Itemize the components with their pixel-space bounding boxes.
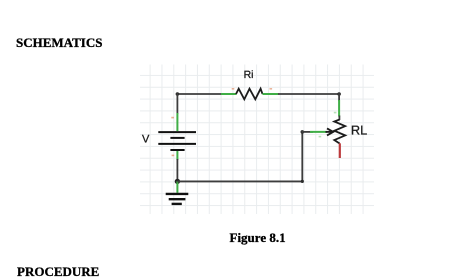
heading PROCEDURE (17, 265, 99, 278)
pin marker battery top (171, 117, 174, 119)
wire left vertical (top) (176, 93, 178, 114)
wiper arrowhead (326, 128, 334, 135)
pin marker RL top (334, 112, 337, 114)
lead red RL bottom (unconnected) (339, 143, 341, 158)
ground lead green (176, 181, 178, 193)
grid background (decorative) (140, 65, 374, 215)
pin marker Ri left (232, 88, 235, 90)
lead green RL top (338, 100, 340, 117)
wire left vertical (bottom) (176, 159, 178, 181)
lead green Ri right (263, 93, 279, 95)
wire RL top stub (338, 116, 340, 121)
wire right vertical (338, 93, 340, 101)
label V (142, 133, 150, 145)
label RL (351, 123, 367, 138)
ground symbol (166, 194, 189, 204)
resistor Ri zigzag (236, 89, 263, 100)
pin marker Ri right (270, 88, 273, 90)
node dot wiper corner (301, 130, 305, 134)
node dot top-left corner (176, 92, 180, 96)
wire top-right horizontal (278, 93, 340, 95)
battery V plates (158, 132, 196, 150)
lead green battery top (pin +) (176, 113, 178, 131)
lead green wiper (310, 131, 327, 133)
node dot bottom-right corner (301, 180, 304, 183)
svg-text:RL: RL (351, 123, 367, 138)
label Ri (244, 69, 254, 81)
svg-text:V: V (142, 133, 150, 145)
wire mid-right vertical (301, 132, 303, 182)
node junction dot (175, 179, 180, 184)
pin marker wiper (319, 136, 322, 138)
pin marker battery bottom (172, 155, 175, 157)
lead green battery bottom (pin -) (176, 151, 178, 160)
heading SCHEMATICS (16, 36, 102, 49)
caption Figure 8.1 (230, 231, 286, 244)
svg-text:Ri: Ri (244, 69, 254, 81)
potentiometer RL zigzag (334, 120, 345, 144)
wire top-left horizontal (177, 93, 222, 95)
wire bottom horizontal (177, 180, 303, 182)
wire wiper shaft (302, 131, 314, 133)
node dot top-right corner (337, 92, 341, 96)
lead green Ri left (221, 93, 237, 95)
